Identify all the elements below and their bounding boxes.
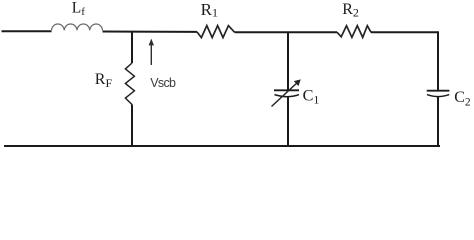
wire: C2 branch vertical (bottom)	[437, 97, 439, 146]
resistor R1	[197, 26, 235, 38]
svg-text:R2: R2	[342, 1, 359, 20]
svg-text:RF: RF	[95, 71, 113, 90]
inductor Lf	[52, 24, 103, 30]
svg-text:C2: C2	[454, 89, 471, 109]
wire: R1 to R2 with node at C1 branch	[235, 31, 338, 33]
wire: R2 to top-right corner	[371, 31, 438, 33]
wire: C1 branch vertical (bottom)	[287, 97, 289, 146]
svg-text:Lf: Lf	[72, 0, 85, 18]
wire: top left lead	[2, 30, 52, 32]
wire: RF branch vertical (top)	[131, 31, 133, 63]
wire: bottom rail	[4, 145, 440, 147]
svg-text:Vscb: Vscb	[150, 76, 176, 90]
wire: RF branch vertical (bottom)	[131, 105, 133, 147]
resistor RF	[125, 63, 134, 105]
wire: inductor to R1	[103, 31, 198, 33]
wire: C1 branch vertical (top)	[287, 32, 289, 89]
capacitor C2	[427, 91, 450, 97]
wire: C2 branch vertical (top)	[437, 31, 439, 90]
svg-text:C1: C1	[303, 86, 320, 106]
resistor R2	[337, 26, 371, 38]
arrow Vscb	[149, 39, 154, 65]
svg-text:R1: R1	[201, 0, 218, 20]
capacitor C1 (variable)	[272, 79, 301, 106]
